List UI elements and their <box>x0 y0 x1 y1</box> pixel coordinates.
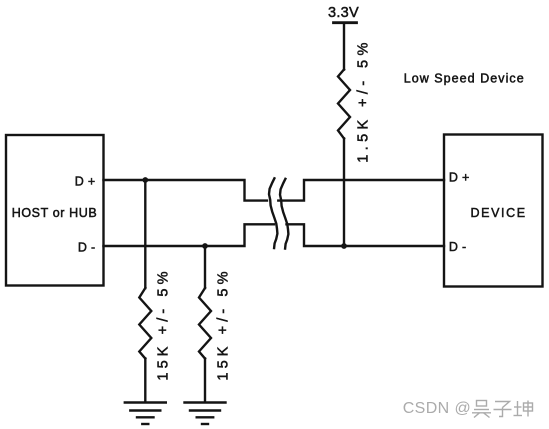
box DEVICE <box>444 135 543 287</box>
svg-text:15K +/- 5%: 15K +/- 5% <box>216 267 232 380</box>
svg-text:3.3V: 3.3V <box>328 5 359 21</box>
wire R1 to D- net <box>343 139 345 247</box>
wire R3 to ground <box>204 359 206 403</box>
svg-text:D +: D + <box>449 171 470 185</box>
svg-text:Low Speed Device: Low Speed Device <box>404 71 525 85</box>
cable break squiggle left <box>269 178 277 248</box>
wire D- left segment <box>104 224 275 246</box>
wire D+ right segment <box>278 180 444 201</box>
resistor R2 15K zigzag <box>139 288 151 359</box>
svg-text:D -: D - <box>449 240 467 254</box>
wire R2 to ground <box>144 359 146 403</box>
cable break squiggle right <box>280 179 288 249</box>
svg-text:HOST or HUB: HOST or HUB <box>12 206 98 220</box>
wire D+ to R2 <box>144 180 146 288</box>
wire D- right segment <box>287 224 445 246</box>
ground symbol right <box>185 403 226 425</box>
ground symbol left <box>125 403 166 425</box>
resistor R1 1.5K pull-up zigzag <box>338 70 350 139</box>
box HOST or HUB <box>6 135 104 286</box>
wire D- to R3 <box>204 246 206 288</box>
junction dot R3 on D- <box>202 243 208 249</box>
svg-text:CSDN @: CSDN @ <box>403 400 471 417</box>
svg-text:D -: D - <box>78 241 96 255</box>
power rail 3.3V bar <box>334 21 357 24</box>
watermark glyph zi <box>494 402 512 417</box>
wire D+ left segment <box>104 180 268 201</box>
watermark CSDN <box>403 400 533 418</box>
svg-text:15K +/- 5%: 15K +/- 5% <box>155 267 171 380</box>
junction dot R1 on D- <box>341 243 347 249</box>
svg-text:D +: D + <box>75 175 96 189</box>
svg-text:1.5K +/- 5%: 1.5K +/- 5% <box>355 38 371 163</box>
svg-text:DEVICE: DEVICE <box>471 206 527 220</box>
resistor R3 15K zigzag <box>199 288 211 359</box>
watermark glyph kun <box>514 401 533 417</box>
watermark glyph wu <box>472 401 491 418</box>
junction dot R2 on D+ <box>142 177 148 183</box>
wire 3.3V to R1 <box>343 24 345 70</box>
